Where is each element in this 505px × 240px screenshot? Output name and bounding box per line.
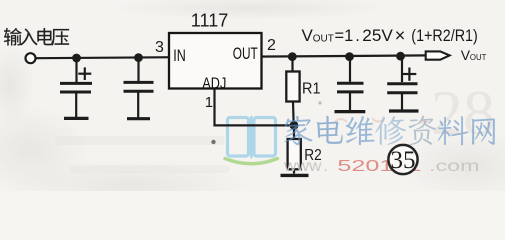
ground bar under C3 [335,110,366,113]
node junction J5 [396,52,405,61]
formula Vout=1.25V×(1+R2/R1) [302,25,478,45]
svg-text:2: 2 [267,37,276,54]
wire ADJ pin down and right to divider node [215,89,295,126]
capacitor C3 [337,57,364,111]
pin label OUT [233,44,258,63]
svg-text:IN: IN [173,46,186,65]
value label R1 [302,81,321,98]
svg-text:R1: R1 [302,81,321,98]
svg-text:=1: =1 [335,27,354,45]
node junction J1 [72,54,81,63]
svg-text:.com: .com [429,158,480,175]
book watermark icon [225,117,278,164]
svg-text:V: V [302,26,314,45]
svg-text:35: 35 [391,147,416,174]
ground bar under C4 [389,109,419,112]
svg-text:OUT: OUT [233,44,258,63]
svg-text:1117: 1117 [191,10,229,31]
node junction J4 [345,52,354,61]
node junction J6 (ADJ divider node) [290,121,299,130]
resistor R1 [286,57,299,125]
watermark 家电维修资料网 [284,115,495,145]
svg-text:.: . [355,27,360,45]
node junction J3 (output node) [288,52,297,61]
capacitor C2 [124,58,154,118]
svg-text:3: 3 [155,39,164,56]
pin 1 label [205,94,213,111]
background paper [0,0,505,191]
node label Vout [461,47,487,63]
svg-text:×: × [395,25,406,45]
op-amp / regulator U1 1117 box [169,33,262,89]
pin 3 label [155,39,164,56]
svg-text:.: . [324,158,328,175]
node junction J2 [134,53,143,62]
pin label IN [173,46,186,65]
input terminal circle [26,53,36,63]
svg-text:OUT: OUT [470,52,487,62]
svg-text:OUT: OUT [313,33,334,44]
ground bar under C1 [64,117,89,120]
pin 2 label [267,37,276,54]
capacitor C4 (output electrolytic, +) [387,56,417,109]
svg-text:(1+R2/R1): (1+R2/R1) [411,27,478,45]
svg-text:1: 1 [205,94,213,111]
resistor R2 [288,125,301,173]
output arrow terminal [426,51,450,59]
svg-text:www: www [283,158,323,175]
label 输入电压 (input voltage) [4,28,69,46]
ground bar under C2 [127,117,150,120]
svg-text:25V: 25V [362,27,393,45]
page badge circled 35 [388,145,417,174]
wire main horizontal rail [36,55,427,58]
pin label ADJ [202,76,226,93]
value label R2 [304,147,322,164]
label 1117 [191,10,229,31]
watermark url www.520101.com [283,158,480,175]
capacitor C1 (input electrolytic, +) [60,58,92,117]
ground bar under R2 [281,174,309,177]
